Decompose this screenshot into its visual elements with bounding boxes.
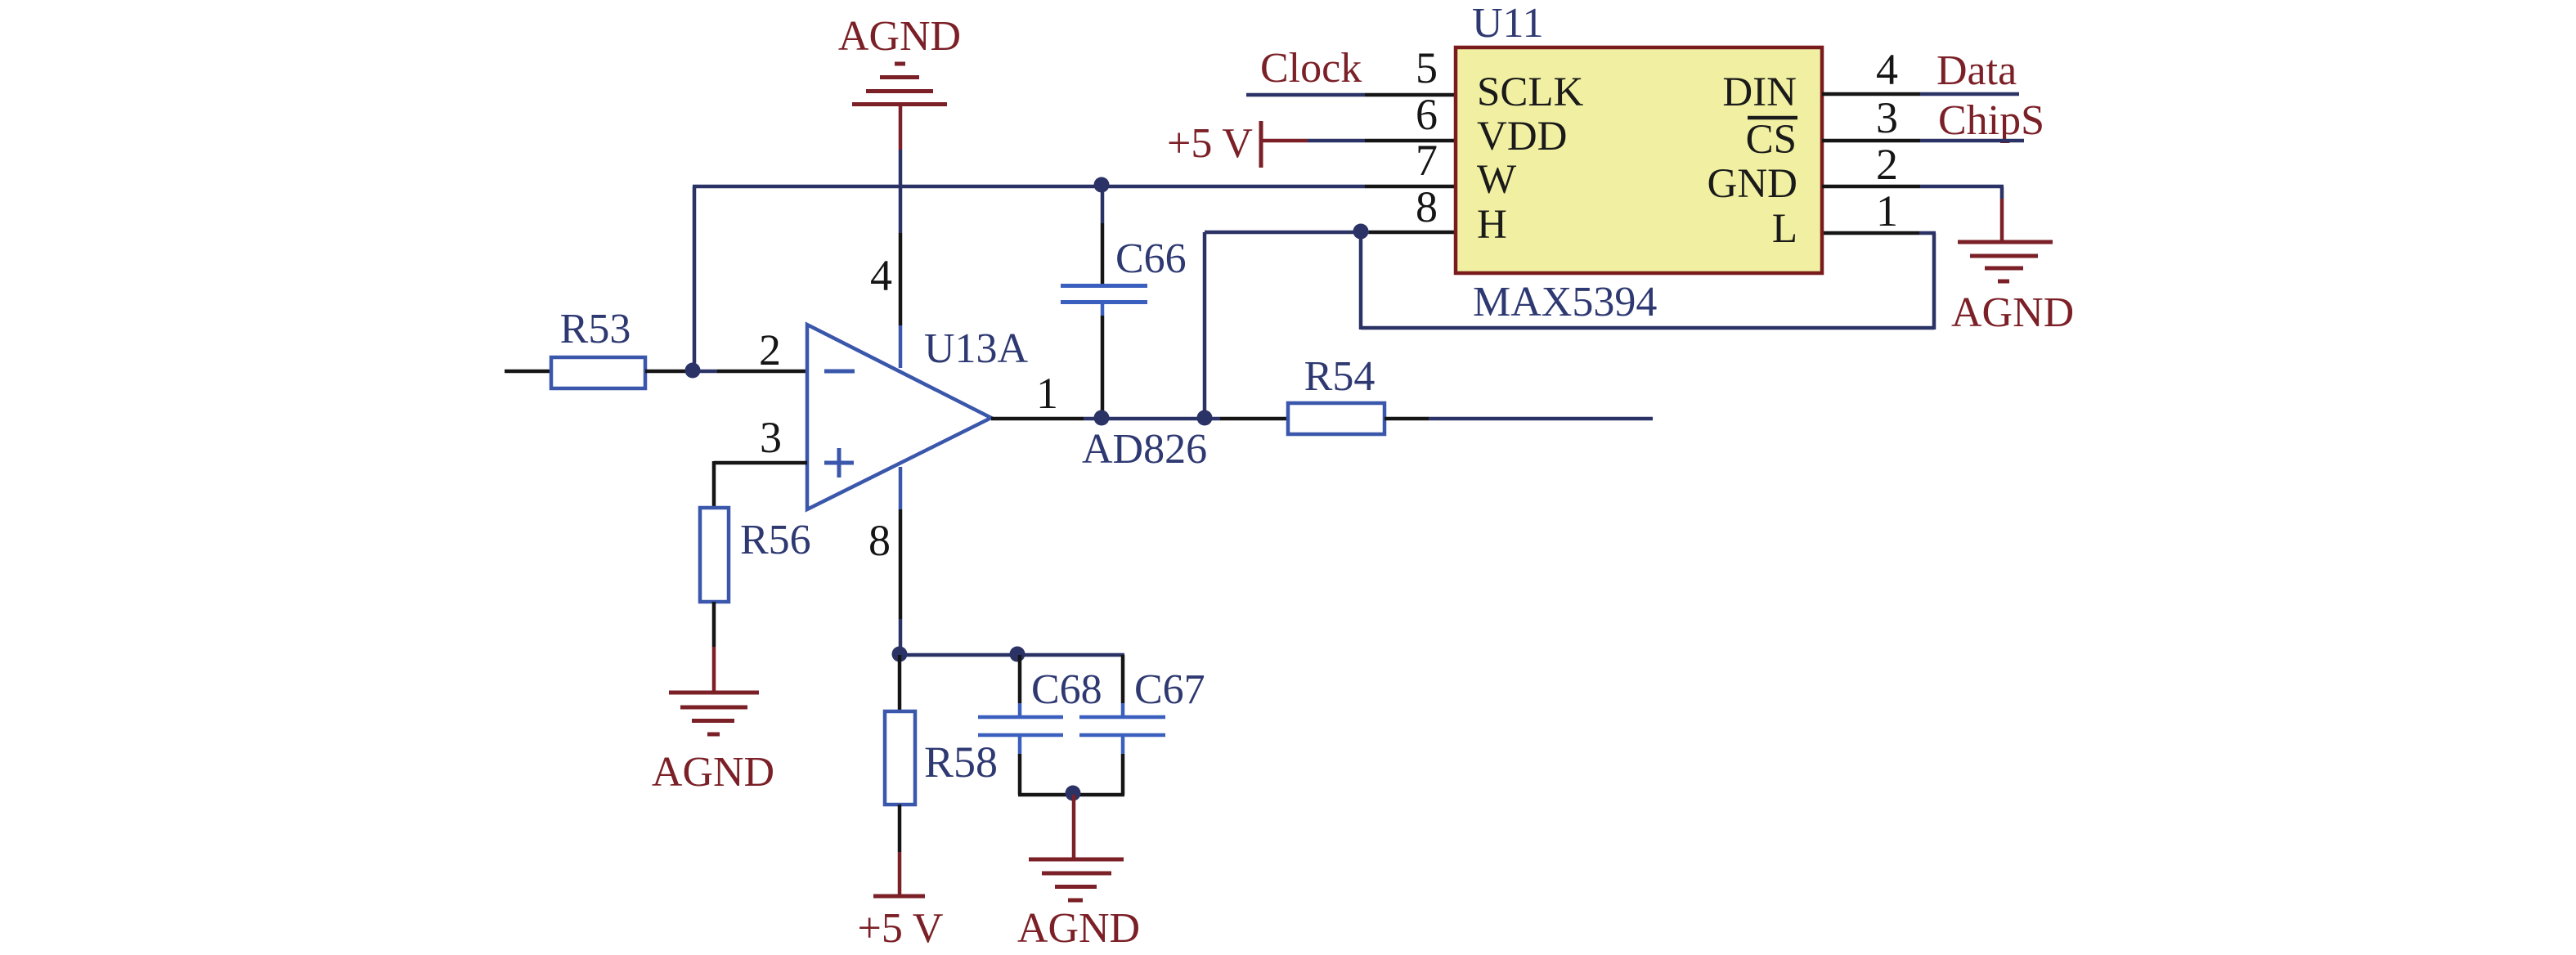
- svg-text:2: 2: [1876, 140, 1898, 189]
- svg-text:ChipS: ChipS: [1938, 97, 2044, 144]
- svg-text:AD826: AD826: [1082, 426, 1207, 473]
- capacitor C67: [1079, 655, 1205, 795]
- svg-text:H: H: [1477, 202, 1507, 248]
- pin number 2 label: [759, 325, 781, 374]
- wire R56 to ground: [712, 602, 716, 691]
- svg-text:CS: CS: [1746, 117, 1797, 163]
- wire capacitor bottom bus: [1018, 793, 1124, 797]
- svg-text:GND: GND: [1708, 161, 1798, 207]
- svg-text:C67: C67: [1134, 666, 1205, 713]
- pin number 1: [1876, 186, 1898, 235]
- svg-text:MAX5394: MAX5394: [1473, 279, 1657, 325]
- svg-text:VDD: VDD: [1477, 114, 1568, 159]
- svg-text:6: 6: [1416, 90, 1438, 139]
- node junction C68 top: [1010, 647, 1025, 662]
- resistor R54: [1288, 353, 1384, 434]
- resistor R53: [551, 306, 645, 388]
- svg-text:U11: U11: [1472, 0, 1544, 47]
- wire R54 output to right: [1384, 417, 1653, 421]
- capacitor C68: [978, 655, 1102, 795]
- wire H net vertical: [1203, 232, 1207, 419]
- svg-text:U13A: U13A: [924, 325, 1029, 372]
- wire H net horizontal to chip pin 8: [1205, 231, 1456, 235]
- wire L loop: [1361, 232, 1936, 330]
- chip pin label CS with overline: [1746, 117, 1797, 163]
- svg-text:Clock: Clock: [1260, 45, 1362, 92]
- svg-text:+5 V: +5 V: [1167, 120, 1253, 167]
- capacitor C66: [1061, 186, 1187, 419]
- svg-text:3: 3: [1876, 93, 1898, 142]
- svg-text:AGND: AGND: [838, 13, 961, 60]
- svg-text:7: 7: [1416, 136, 1438, 185]
- resistor R58: [885, 655, 998, 805]
- chip pin label SCLK: [1477, 69, 1584, 115]
- wire feedback vertical from node up to W net: [693, 186, 697, 370]
- wire AGND stem down to op-amp pin 4: [899, 106, 903, 368]
- svg-text:C66: C66: [1115, 235, 1187, 282]
- wire Clock to chip pin 5: [1246, 93, 1456, 97]
- label AD826: [1082, 426, 1207, 473]
- op-amp U13A: [807, 325, 1029, 509]
- wire R53 to op-amp inverting input: [645, 370, 807, 374]
- pin number 7: [1416, 136, 1438, 185]
- IC U11 MAX5394: [1456, 0, 1822, 325]
- node junction at inverting input: [685, 363, 701, 379]
- svg-text:4: 4: [1876, 45, 1898, 94]
- wire input to R53: [505, 370, 553, 374]
- chip pin label DIN: [1722, 69, 1797, 115]
- pin number 8 label: [868, 516, 891, 565]
- wire down to AGND bottom: [1072, 795, 1076, 858]
- resistor R56: [700, 508, 811, 602]
- wire op-amp output: [991, 417, 1288, 421]
- svg-text:AGND: AGND: [1951, 289, 2074, 336]
- svg-text:8: 8: [1416, 182, 1438, 231]
- pin number 6: [1416, 90, 1438, 139]
- svg-text:C68: C68: [1031, 666, 1102, 713]
- pin number 3: [1876, 93, 1898, 142]
- svg-text:R56: R56: [740, 517, 811, 563]
- pin number 5: [1416, 43, 1438, 92]
- ground AGND top: [838, 13, 961, 105]
- pin number 8: [1416, 182, 1438, 231]
- wire GND pin 2 to AGND right: [1822, 186, 2004, 240]
- power +5V top: [1167, 120, 1456, 168]
- wire op-amp non-inverting input pin 3: [714, 461, 807, 508]
- svg-text:R54: R54: [1304, 353, 1376, 400]
- svg-text:SCLK: SCLK: [1477, 69, 1584, 115]
- node junction output / H net: [1197, 410, 1213, 426]
- svg-text:3: 3: [760, 413, 782, 462]
- chip pin label H: [1477, 202, 1507, 248]
- label Clock: [1260, 45, 1362, 92]
- label ChipS: [1938, 97, 2044, 144]
- svg-text:1: 1: [1876, 186, 1898, 235]
- power +5V bottom: [858, 805, 944, 952]
- wire W net horizontal to chip pin 7: [693, 185, 1456, 189]
- svg-text:Data: Data: [1936, 47, 2017, 94]
- svg-text:5: 5: [1416, 43, 1438, 92]
- pin number 3 label: [760, 413, 782, 462]
- node junction output / C66: [1094, 410, 1110, 426]
- ground AGND left: [652, 693, 774, 796]
- ground AGND bottom: [1017, 859, 1140, 952]
- svg-text:4: 4: [870, 251, 892, 300]
- svg-text:AGND: AGND: [652, 749, 774, 796]
- node junction pin8 / R58: [892, 647, 908, 662]
- chip pin label L: [1772, 206, 1797, 252]
- ground AGND right: [1951, 242, 2074, 336]
- svg-text:1: 1: [1036, 369, 1058, 418]
- pin number 4 label: [870, 251, 892, 300]
- svg-text:2: 2: [759, 325, 781, 374]
- pin number 4: [1876, 45, 1898, 94]
- pin number 1 label: [1036, 369, 1058, 418]
- node junction W net / C66: [1094, 177, 1110, 193]
- svg-text:L: L: [1772, 206, 1797, 252]
- svg-text:AGND: AGND: [1017, 905, 1140, 952]
- wire Data from chip pin 4: [1822, 92, 2019, 96]
- svg-text:DIN: DIN: [1722, 69, 1797, 115]
- pin number 2: [1876, 140, 1898, 189]
- svg-text:8: 8: [868, 516, 891, 565]
- chip pin label GND: [1708, 161, 1798, 207]
- label Data: [1936, 47, 2017, 94]
- chip pin label VDD: [1477, 114, 1568, 159]
- svg-text:W: W: [1477, 157, 1517, 203]
- chip pin label W: [1477, 157, 1517, 203]
- node junction ground bus: [1066, 786, 1081, 801]
- wire ChipS from chip pin 3: [1822, 139, 2024, 143]
- svg-text:R53: R53: [560, 306, 631, 352]
- svg-text:+5 V: +5 V: [858, 905, 944, 952]
- node junction H / L loop: [1353, 224, 1369, 240]
- wire supply node horizontal to capacitors: [900, 653, 1124, 657]
- wire op-amp pin 8 down to supply node: [899, 467, 903, 655]
- svg-text:R58: R58: [924, 738, 998, 787]
